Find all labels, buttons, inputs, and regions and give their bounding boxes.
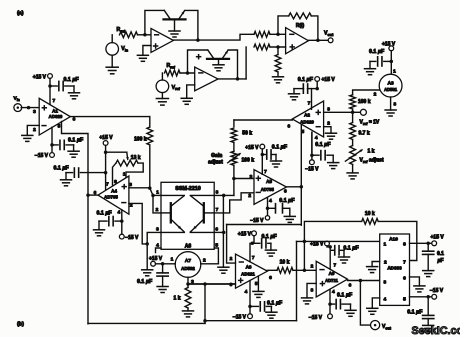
svg-text:2: 2 [156, 207, 159, 213]
svg-text:1: 1 [393, 68, 396, 74]
svg-text:10 k: 10 k [280, 259, 290, 265]
svg-text:−15 V: −15 V [125, 235, 139, 241]
svg-text:AD705: AD705 [261, 187, 275, 192]
svg-text:4: 4 [383, 296, 386, 302]
svg-text:A10: A10 [389, 236, 398, 242]
svg-text:4: 4 [332, 289, 335, 295]
svg-text:4: 4 [156, 242, 159, 248]
svg-text:AD620: AD620 [300, 120, 314, 125]
svg-text:5: 5 [403, 296, 406, 302]
svg-text:3: 3 [327, 106, 330, 112]
svg-text:0.1 μF: 0.1 μF [137, 279, 153, 285]
svg-text:8: 8 [216, 190, 219, 196]
svg-text:2: 2 [384, 260, 387, 266]
svg-text:0.1 μF: 0.1 μF [343, 245, 359, 251]
svg-text:+15 V: +15 V [431, 234, 445, 240]
svg-text:3: 3 [156, 227, 159, 233]
svg-text:4: 4 [269, 198, 272, 204]
svg-text:2: 2 [327, 121, 330, 127]
svg-text:3: 3 [33, 109, 36, 115]
svg-text:0.1 μF: 0.1 μF [54, 166, 70, 172]
svg-text:100 k: 100 k [358, 99, 371, 105]
svg-text:A3: A3 [388, 80, 394, 86]
svg-text:AD705: AD705 [104, 194, 118, 199]
svg-text:0.1 μF: 0.1 μF [315, 142, 331, 148]
svg-text:A6: A6 [185, 244, 192, 250]
svg-text:3: 3 [250, 174, 253, 180]
svg-text:+15 V: +15 V [382, 42, 396, 48]
svg-text:100 k: 100 k [134, 136, 147, 142]
svg-text:2: 2 [248, 193, 251, 199]
svg-text:Gain: Gain [211, 153, 222, 159]
svg-text:+15 V: +15 V [310, 242, 324, 248]
svg-text:1: 1 [383, 241, 386, 247]
svg-text:+15 V: +15 V [33, 74, 47, 80]
svg-text:AD621: AD621 [241, 271, 255, 276]
svg-text:100 k: 100 k [242, 157, 255, 163]
svg-text:R(l): R(l) [296, 23, 305, 29]
svg-text:7: 7 [333, 262, 336, 268]
svg-text:1 k: 1 k [174, 295, 181, 301]
svg-text:0.1 μF: 0.1 μF [267, 300, 283, 306]
svg-text:7: 7 [403, 260, 406, 266]
svg-text:AD581: AD581 [384, 87, 398, 92]
svg-text:4: 4 [117, 210, 120, 216]
svg-text:3: 3 [311, 287, 314, 293]
svg-text:3: 3 [383, 280, 386, 286]
svg-text:1: 1 [171, 257, 174, 263]
svg-text:−15 V: −15 V [35, 153, 49, 159]
svg-text:3: 3 [129, 182, 132, 188]
svg-text:7: 7 [252, 255, 255, 261]
svg-text:AD711: AD711 [325, 278, 338, 283]
svg-text:6: 6 [269, 275, 272, 281]
svg-text:6: 6 [403, 276, 406, 282]
svg-text:7: 7 [264, 169, 267, 175]
svg-text:6: 6 [349, 283, 352, 289]
svg-text:0.1 μF: 0.1 μF [337, 292, 353, 298]
svg-text:7: 7 [216, 207, 219, 213]
svg-text:6: 6 [288, 124, 291, 130]
svg-text:−15 V: −15 V [305, 166, 319, 172]
svg-text:AD620: AD620 [49, 114, 63, 119]
svg-text:2: 2 [33, 127, 36, 133]
svg-text:5: 5 [301, 129, 304, 135]
svg-text:AD633: AD633 [387, 266, 402, 271]
svg-text:5: 5 [215, 242, 218, 248]
svg-text:adjust: adjust [208, 160, 223, 166]
svg-text:2: 2 [203, 258, 206, 264]
svg-text:5: 5 [58, 124, 61, 130]
svg-text:2: 2 [374, 91, 377, 97]
svg-text:50 k: 50 k [242, 131, 252, 137]
svg-text:7: 7 [52, 98, 55, 104]
svg-text:2: 2 [230, 256, 233, 262]
svg-text:0.1 μF: 0.1 μF [97, 211, 113, 217]
svg-text:SSM-2210: SSM-2210 [175, 186, 200, 192]
svg-text:−15 V: −15 V [233, 314, 247, 320]
svg-text:9.7 k: 9.7 k [359, 131, 370, 137]
svg-text:A7: A7 [185, 258, 191, 264]
svg-text:6: 6 [284, 188, 287, 194]
svg-text:7: 7 [308, 100, 311, 106]
svg-text:0.1: 0.1 [437, 251, 444, 257]
svg-text:Vref = 1V: Vref = 1V [360, 119, 380, 125]
svg-text:A9: A9 [329, 271, 335, 276]
svg-text:1: 1 [156, 190, 159, 196]
svg-text:A4: A4 [111, 188, 117, 193]
svg-text:+15 V: +15 V [322, 77, 336, 83]
svg-text:0.1 μF: 0.1 μF [298, 77, 314, 83]
svg-text:1: 1 [123, 171, 126, 177]
svg-text:0.1 μF: 0.1 μF [407, 310, 423, 316]
svg-text:−15 V: −15 V [430, 288, 444, 294]
svg-text:10 k: 10 k [365, 211, 375, 217]
svg-text:+15 V: +15 V [238, 232, 252, 238]
svg-text:A5: A5 [266, 179, 272, 184]
svg-text:2: 2 [311, 263, 314, 269]
svg-text:+15 V: +15 V [149, 256, 163, 262]
svg-text:3: 3 [230, 282, 233, 288]
svg-text:6: 6 [73, 117, 76, 123]
svg-text:−15 V: −15 V [250, 218, 264, 224]
svg-text:6: 6 [215, 227, 218, 233]
svg-text:+15 V: +15 V [99, 135, 113, 141]
svg-text:5: 5 [255, 281, 258, 287]
svg-text:A2: A2 [304, 113, 310, 118]
svg-text:A1: A1 [52, 108, 58, 113]
svg-text:0.1 μF: 0.1 μF [279, 198, 295, 204]
svg-text:SeekIC.com: SeekIC.com [412, 325, 460, 337]
svg-text:(b): (b) [17, 322, 24, 328]
svg-text:0.1 μF: 0.1 μF [262, 234, 278, 240]
svg-text:μF: μF [437, 258, 444, 264]
svg-text:A8: A8 [246, 264, 252, 269]
svg-text:8: 8 [403, 241, 406, 247]
svg-text:0.1 μF: 0.1 μF [272, 145, 288, 151]
svg-text:0.1 μF: 0.1 μF [68, 138, 84, 144]
svg-text:(a): (a) [17, 11, 24, 17]
svg-text:+15 V: +15 V [245, 145, 259, 151]
svg-text:4: 4 [315, 135, 318, 141]
svg-text:13 k: 13 k [131, 155, 141, 161]
svg-text:−15 V: −15 V [309, 315, 323, 321]
svg-text:3: 3 [393, 102, 396, 108]
svg-text:0.1 μF: 0.1 μF [369, 49, 385, 55]
svg-text:AD592: AD592 [181, 266, 195, 271]
svg-text:7: 7 [106, 182, 109, 188]
svg-text:0.1 μF: 0.1 μF [64, 77, 80, 83]
svg-text:1 k: 1 k [368, 149, 375, 155]
svg-text:4: 4 [245, 289, 248, 295]
